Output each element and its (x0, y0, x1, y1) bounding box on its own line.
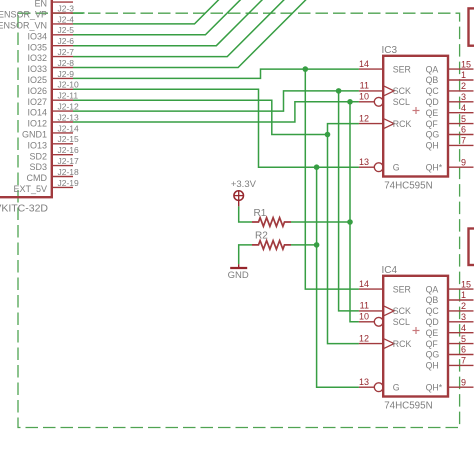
svg-text:J2-8: J2-8 (58, 58, 75, 68)
IC3 pin 13 G (359, 157, 400, 172)
svg-text:QH*: QH* (426, 382, 443, 392)
svg-text:6: 6 (461, 125, 466, 135)
pin J2-11 (IO27) (52, 99, 73, 101)
node junction SER (303, 66, 309, 72)
svg-text:IC3: IC3 (382, 45, 398, 56)
wire R2 left to GND (239, 245, 252, 264)
svg-text:15: 15 (461, 279, 471, 289)
wire from J2-4 rising diagonal to top edge (73, 0, 219, 24)
svg-text:1: 1 (461, 290, 466, 300)
IC3 pin 12 RCK (359, 113, 412, 128)
IC4 pin 9 QH* (426, 377, 474, 392)
svg-text:IO13: IO13 (27, 140, 47, 150)
pin J2-2 (EN) (52, 1, 73, 3)
svg-text:4: 4 (461, 103, 466, 113)
svg-text:SCL: SCL (393, 317, 410, 327)
wire net SER: J2-9 to IC3 SER (73, 69, 359, 78)
svg-text:10: 10 (359, 92, 369, 102)
IC4 pin 5 QF (426, 334, 474, 349)
svg-text:CMD: CMD (27, 173, 48, 183)
wire net SCL vertical drop to IC4 SCL (350, 102, 359, 322)
wire R1 right to SCL net (291, 221, 350, 223)
wire R2 right to G net (291, 244, 317, 246)
svg-text:QB: QB (426, 295, 439, 305)
pin J2-19 (EXT_5V) (52, 186, 73, 188)
svg-text:J2-15: J2-15 (58, 134, 80, 144)
svg-text:10: 10 (359, 312, 369, 322)
svg-text:3: 3 (461, 312, 466, 322)
svg-text:DEVKITC-32D: DEVKITC-32D (0, 203, 48, 215)
svg-text:J2-4: J2-4 (58, 14, 75, 24)
svg-text:IO32: IO32 (27, 53, 47, 63)
svg-text:SCK: SCK (393, 306, 411, 316)
wire net SENSOR_VP stub (J2-3) (73, 12, 85, 14)
node junction R2-G (314, 242, 320, 248)
ground symbol GND (228, 264, 249, 281)
pin J2-16 (SD2) (52, 154, 73, 156)
pin J2-12 (IO14) (52, 110, 73, 112)
pin J2-18 (CMD) (52, 176, 73, 178)
svg-text:1: 1 (461, 70, 466, 80)
wire from J2-6 rising diagonal to top edge (73, 0, 263, 46)
svg-text:QE: QE (426, 328, 439, 338)
wire from J2-7 rising diagonal to top edge (73, 0, 285, 57)
IC3 pin 4 QE (426, 103, 474, 118)
+3.3V supply symbol (231, 179, 257, 207)
IC3 pin 3 QD (426, 92, 474, 107)
IC3 pin 7 QH (426, 136, 474, 151)
svg-text:QD: QD (426, 317, 439, 327)
svg-text:IO35: IO35 (27, 42, 47, 52)
svg-text:J2-3: J2-3 (58, 3, 75, 13)
pin J2-3 (SENSOR_VP) (52, 12, 73, 14)
svg-text:J2-10: J2-10 (58, 80, 80, 90)
op IC IC3 74HC595N body (383, 56, 448, 177)
wire net SER vertical drop to IC4 SER (305, 69, 359, 289)
wire from J2-8 rising diagonal to top edge (73, 0, 307, 68)
svg-text:2: 2 (461, 81, 466, 91)
svg-text:G: G (393, 162, 400, 172)
svg-text:SCK: SCK (393, 86, 411, 96)
IC3 pin 15 QA (426, 59, 474, 74)
svg-text:J2-13: J2-13 (58, 112, 80, 122)
svg-text:J2-11: J2-11 (58, 91, 79, 101)
svg-text:QA: QA (426, 284, 439, 294)
IC4 pin 2 QC (426, 301, 474, 316)
node junction SCL top (347, 99, 353, 105)
svg-text:QC: QC (426, 306, 440, 316)
svg-text:J2-17: J2-17 (58, 156, 80, 166)
svg-text:IC4: IC4 (382, 265, 398, 276)
pin J2-14 (GND1) (52, 132, 73, 134)
svg-text:QF: QF (426, 339, 439, 349)
svg-text:IO34: IO34 (27, 31, 47, 41)
svg-text:11: 11 (360, 301, 369, 311)
svg-text:QH*: QH* (426, 162, 443, 172)
resistor R1 (252, 218, 291, 227)
svg-text:QH: QH (426, 141, 439, 151)
svg-text:QG: QG (426, 350, 440, 360)
svg-text:SD3: SD3 (29, 162, 47, 172)
svg-text:J2-12: J2-12 (58, 102, 80, 112)
partial component box (cropped, top right) (469, 8, 474, 45)
svg-text:5: 5 (461, 114, 466, 124)
IC4 pin 7 QH (426, 356, 474, 371)
svg-text:7: 7 (461, 356, 466, 366)
svg-text:12: 12 (359, 113, 369, 123)
pin J2-13 (IO12) (52, 121, 73, 123)
svg-text:IO12: IO12 (27, 119, 47, 129)
IC3 pin 11 SCK (359, 81, 411, 96)
IC3 origin cross (413, 110, 420, 112)
svg-text:QB: QB (426, 75, 439, 85)
wire net RCK: J2-11 jog down then up into IC3 RCK (73, 100, 359, 134)
IC3 pin 2 QC (426, 81, 474, 96)
pin J2-6 (IO35) (52, 45, 73, 47)
node junction SCK (336, 88, 342, 94)
svg-text:2: 2 (461, 301, 466, 311)
svg-text:SER: SER (393, 64, 411, 74)
svg-text:+3.3V: +3.3V (231, 179, 257, 190)
svg-text:G: G (393, 382, 400, 392)
node junction G (314, 164, 320, 170)
svg-text:J2-18: J2-18 (58, 167, 80, 177)
svg-text:IO14: IO14 (27, 108, 47, 118)
svg-text:J2-7: J2-7 (58, 47, 75, 57)
svg-text:IO33: IO33 (27, 64, 47, 74)
svg-text:R2: R2 (255, 231, 268, 242)
svg-text:J2-19: J2-19 (58, 178, 80, 188)
IC3 pin 14 SER (359, 59, 411, 74)
svg-text:SER: SER (393, 284, 411, 294)
svg-text:J2-14: J2-14 (58, 123, 80, 133)
wire from J2-5 rising diagonal to top edge (73, 0, 241, 35)
wire net G vertical drop to IC4 G (317, 167, 359, 387)
svg-text:14: 14 (359, 59, 369, 69)
svg-text:SD2: SD2 (29, 151, 47, 161)
svg-text:RCK: RCK (393, 119, 412, 129)
wire net SCK: J2-12 up into IC3 SCK (73, 91, 359, 111)
IC4 pin 11 SCK (359, 301, 411, 316)
svg-text:QE: QE (426, 108, 439, 118)
IC3 pin 10 SCL (359, 92, 410, 107)
svg-text:12: 12 (359, 333, 369, 343)
pin J2-15 (IO13) (52, 143, 73, 145)
svg-text:IO25: IO25 (27, 75, 47, 85)
IC4 pin 14 SER (359, 279, 411, 294)
svg-text:3: 3 (461, 92, 466, 102)
IC3 pin 1 QB (426, 70, 474, 85)
svg-text:SENSOR_VN: SENSOR_VN (0, 21, 47, 31)
wire +3.3V supply to R1 left (239, 206, 252, 222)
IC4 pin 4 QE (426, 323, 474, 338)
svg-text:QA: QA (426, 64, 439, 74)
op IC IC4 74HC595N body (383, 276, 448, 397)
svg-text:EN: EN (34, 0, 47, 9)
IC4 pin 1 QB (426, 290, 474, 305)
pin J2-5 (IO34) (52, 34, 73, 36)
svg-text:9: 9 (461, 377, 466, 387)
wire net RCK vertical drop to IC4 RCK (328, 135, 359, 344)
IC4 pin 13 G (359, 377, 400, 392)
partial component box (cropped, middle right) (469, 229, 474, 266)
svg-text:9: 9 (461, 157, 466, 167)
IC4 pin 10 SCL (359, 312, 410, 327)
wire net SCK vertical drop to IC4 SCK (339, 91, 359, 311)
svg-text:QF: QF (426, 119, 439, 129)
wire net SCL: J2-13 up into IC3 SCL (73, 102, 359, 122)
svg-text:J2-16: J2-16 (58, 145, 80, 155)
resistor R2 (252, 241, 291, 250)
svg-text:13: 13 (359, 377, 369, 387)
svg-text:IO26: IO26 (27, 86, 47, 96)
svg-text:14: 14 (359, 279, 369, 289)
svg-text:6: 6 (461, 345, 466, 355)
IC4 pin 6 QG (426, 345, 474, 360)
svg-text:SCL: SCL (393, 97, 410, 107)
svg-text:7: 7 (461, 136, 466, 146)
svg-text:J2-5: J2-5 (58, 25, 75, 35)
node junction R1-SCL (347, 219, 353, 225)
svg-text:15: 15 (461, 59, 471, 69)
svg-text:SENSOR_VP: SENSOR_VP (0, 10, 47, 20)
node junction RCK (325, 132, 331, 138)
svg-text:IO27: IO27 (27, 97, 47, 107)
pin J2-10 (IO26) (52, 88, 73, 90)
svg-text:5: 5 (461, 334, 466, 344)
pin J2-9 (IO25) (52, 77, 73, 79)
svg-text:13: 13 (359, 157, 369, 167)
pin J2-8 (IO33) (52, 67, 73, 69)
svg-text:GND: GND (228, 270, 249, 281)
svg-text:J2-9: J2-9 (58, 69, 75, 79)
wire net G: J2-10 down and across to IC3 G (73, 89, 359, 167)
svg-text:74HC595N: 74HC595N (384, 181, 432, 192)
svg-text:R1: R1 (254, 208, 267, 219)
svg-text:RCK: RCK (393, 339, 412, 349)
svg-text:4: 4 (461, 323, 466, 333)
svg-text:EXT_5V: EXT_5V (13, 184, 47, 194)
svg-text:GND1: GND1 (22, 130, 47, 140)
svg-text:QD: QD (426, 97, 439, 107)
connector/module A1 ESP32 DEVKITC-32D (body, cropped left/top) (0, 0, 52, 197)
svg-text:QH: QH (426, 361, 439, 371)
IC3 pin 5 QF (426, 114, 474, 129)
IC4 origin cross (413, 330, 420, 332)
pin J2-17 (SD3) (52, 165, 73, 167)
IC3 pin 6 QG (426, 125, 474, 140)
IC3 pin 9 QH* (426, 157, 474, 172)
svg-text:11: 11 (360, 81, 369, 91)
pin J2-4 (SENSOR_VN) (52, 23, 73, 25)
svg-text:74HC595N: 74HC595N (384, 401, 432, 412)
IC4 pin 12 RCK (359, 333, 412, 348)
svg-text:QC: QC (426, 86, 440, 96)
IC4 pin 15 QA (426, 279, 474, 294)
IC4 pin 3 QD (426, 312, 474, 327)
svg-text:QG: QG (426, 130, 440, 140)
svg-text:J2-6: J2-6 (58, 36, 75, 46)
pin J2-7 (IO32) (52, 56, 73, 58)
